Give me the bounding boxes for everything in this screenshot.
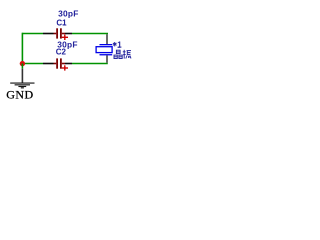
crystal body xyxy=(96,47,112,53)
crystal bottom pin xyxy=(106,55,108,62)
capacitor C2 left pin xyxy=(43,63,56,65)
label jingzhen char zhen (vibrate) xyxy=(123,50,131,59)
svg-text:GND: GND xyxy=(6,87,34,101)
capacitor C1 plates xyxy=(56,28,62,38)
designator asterisk of *1 xyxy=(113,42,117,46)
wire bottom net left segment xyxy=(22,63,43,65)
capacitor C2 plates xyxy=(56,58,62,68)
serif foot of digit 1 in *1 xyxy=(118,46,121,49)
svg-text:C1: C1 xyxy=(56,18,67,27)
capacitor C1 left pin xyxy=(43,33,56,35)
junction node dot xyxy=(20,61,25,66)
capacitor C1 polarity plus xyxy=(62,35,68,40)
label jingzhen char jing (crystal) xyxy=(114,50,122,58)
svg-text:30pF: 30pF xyxy=(58,8,79,18)
wire top net right segment xyxy=(72,33,108,35)
ground stem xyxy=(21,69,23,83)
wire top net left segment xyxy=(22,33,43,35)
serif foot of digit 1 in C1 xyxy=(63,23,66,26)
wire bottom net right segment xyxy=(72,63,108,65)
capacitor C1 right pin xyxy=(62,33,72,35)
capacitor C2 polarity plus xyxy=(62,65,68,70)
wire left vertical xyxy=(21,33,23,64)
crystal top pin xyxy=(106,34,108,44)
svg-text:1: 1 xyxy=(117,41,122,50)
svg-text:C2: C2 xyxy=(56,48,67,57)
crystal bottom plate xyxy=(100,54,113,55)
crystal top plate xyxy=(100,44,113,45)
ground stub wire xyxy=(21,64,23,69)
ground bars xyxy=(10,83,34,88)
capacitor C2 right pin xyxy=(62,63,72,65)
